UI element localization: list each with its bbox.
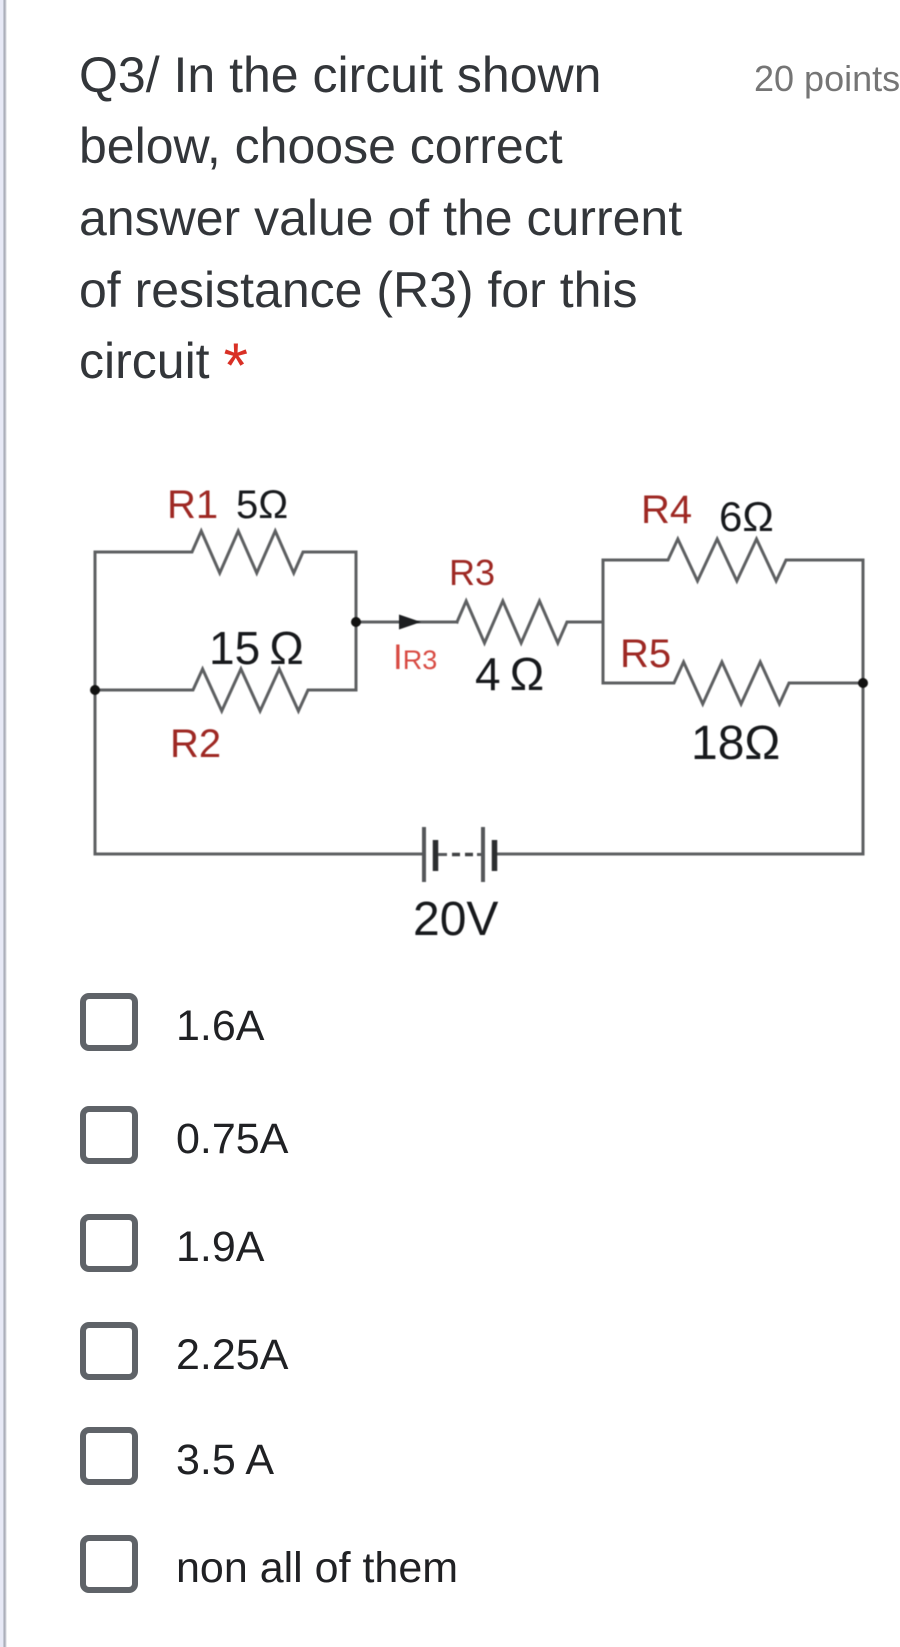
wire left vertical xyxy=(94,552,97,854)
svg-text:5Ω: 5Ω xyxy=(236,483,288,527)
wire right vertical xyxy=(862,560,865,854)
option 3 checkbox xyxy=(80,1214,264,1272)
wire mid-right vertical xyxy=(602,560,605,683)
node A (junction left R1/R2 to R3) xyxy=(351,617,361,627)
question title xyxy=(79,40,682,403)
wire bottom left segment xyxy=(95,853,424,856)
wire mid-left vertical xyxy=(355,552,358,690)
svg-text:IR3: IR3 xyxy=(393,638,437,677)
svg-text:R2: R2 xyxy=(170,722,221,766)
resistor R1 xyxy=(95,531,356,573)
battery B1 20V xyxy=(424,827,495,882)
option 5 checkbox xyxy=(80,1427,274,1485)
option 2 checkbox xyxy=(80,1106,288,1164)
option 1 checkbox xyxy=(80,993,264,1051)
svg-text:R3: R3 xyxy=(449,552,495,593)
resistor R3 xyxy=(457,601,603,643)
option 4 checkbox xyxy=(80,1322,288,1380)
svg-text:15 Ω: 15 Ω xyxy=(209,622,304,674)
resistor R2 xyxy=(95,669,356,711)
svg-text:6Ω: 6Ω xyxy=(719,493,774,540)
left card edge strip xyxy=(0,0,8,1647)
wire bottom right segment xyxy=(494,853,863,856)
svg-text:20V: 20V xyxy=(413,893,498,946)
svg-text:18Ω: 18Ω xyxy=(691,717,780,770)
circuit schematic xyxy=(0,0,900,1000)
arrow IR3 current direction xyxy=(399,615,421,630)
resistor R4 xyxy=(603,539,863,581)
points badge xyxy=(754,61,900,97)
resistor R5 xyxy=(603,662,863,704)
svg-text:4 Ω: 4 Ω xyxy=(475,648,544,700)
node left junction xyxy=(90,685,100,695)
option 6 checkbox xyxy=(80,1535,458,1593)
wire R3 row xyxy=(356,621,457,624)
svg-text:R5: R5 xyxy=(620,632,671,676)
svg-text:R4: R4 xyxy=(641,488,692,532)
node right junction xyxy=(858,678,868,688)
svg-text:R1: R1 xyxy=(167,483,218,527)
